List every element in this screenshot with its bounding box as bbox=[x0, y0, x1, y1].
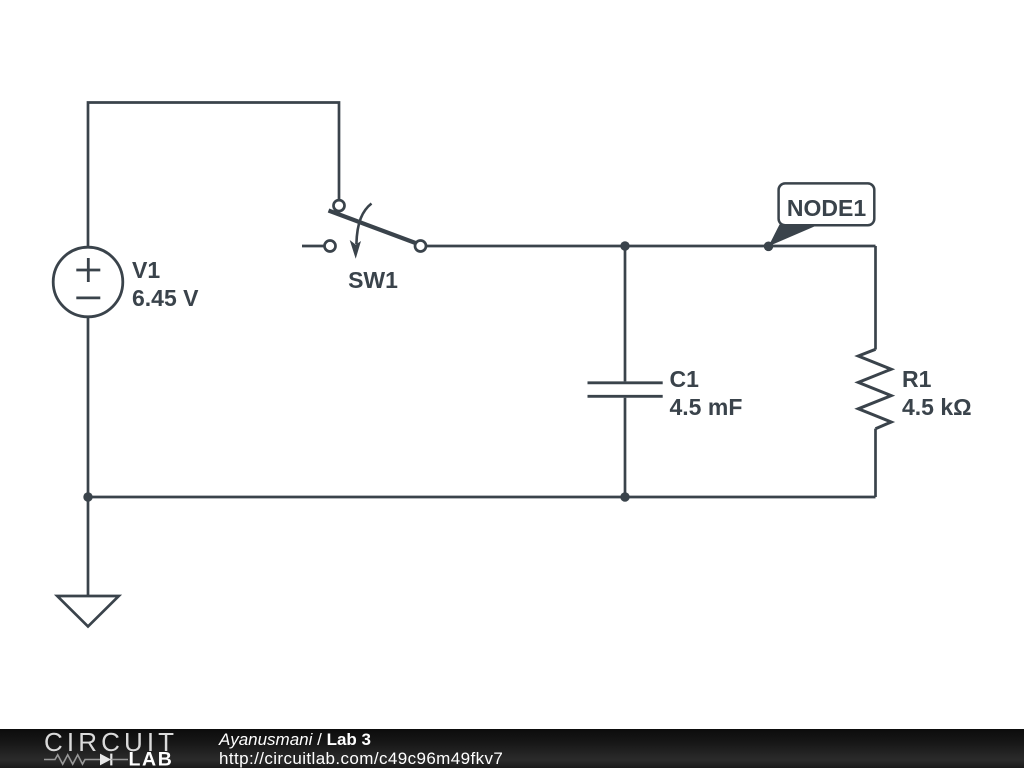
footer url bbox=[219, 749, 503, 768]
wire: capacitor top lead bbox=[624, 246, 627, 381]
svg-text:Ayanusmani / Lab 3: Ayanusmani / Lab 3 bbox=[218, 730, 371, 749]
svg-text:LAB: LAB bbox=[129, 749, 174, 768]
junction: bottom-left node bbox=[83, 492, 92, 501]
svg-text:6.45 V: 6.45 V bbox=[132, 285, 199, 311]
svg-text:R1: R1 bbox=[902, 366, 932, 392]
capacitor C1 bbox=[588, 383, 663, 397]
svg-text:NODE1: NODE1 bbox=[787, 195, 866, 221]
label SW1 bbox=[348, 267, 398, 293]
CircuitLab logo squiggle resistor bbox=[44, 755, 100, 764]
wire: V1 bottom lead bbox=[87, 317, 90, 498]
junction: capacitor top node bbox=[620, 241, 629, 250]
label V1 6.45 V bbox=[132, 257, 199, 311]
svg-text:4.5 kΩ: 4.5 kΩ bbox=[902, 394, 972, 420]
wire: resistor bottom to bottom rail bbox=[874, 429, 877, 497]
wire: V1 top to switch SW1 top terminal bbox=[88, 103, 339, 248]
svg-text:http://circuitlab.com/c49c96m4: http://circuitlab.com/c49c96m49fkv7 bbox=[219, 749, 503, 768]
ground bbox=[57, 596, 119, 627]
node NODE1 flag bbox=[769, 183, 875, 246]
svg-text:4.5 mF: 4.5 mF bbox=[670, 394, 743, 420]
wire: capacitor bottom lead bbox=[624, 398, 627, 497]
switch SW1 bbox=[302, 200, 426, 259]
CircuitLab logo diode bbox=[100, 754, 128, 766]
svg-text:SW1: SW1 bbox=[348, 267, 398, 293]
junction: NODE1 node dot bbox=[764, 242, 774, 252]
resistor R1 bbox=[858, 349, 891, 428]
footer bar bbox=[0, 729, 1024, 768]
voltage source V1 bbox=[53, 247, 123, 317]
label C1 4.5 mF bbox=[670, 366, 743, 420]
junction: capacitor bottom node bbox=[620, 492, 629, 501]
label R1 4.5 kOhm bbox=[902, 366, 972, 420]
CircuitLab logo LAB bbox=[129, 749, 174, 768]
CircuitLab logo CIRCUIT bbox=[44, 727, 178, 757]
wire: bottom rail bbox=[88, 496, 876, 499]
svg-text:C1: C1 bbox=[670, 366, 700, 392]
wire: ground lead bbox=[87, 497, 90, 596]
footer title Ayanusmani / Lab 3 bbox=[218, 730, 371, 749]
svg-text:V1: V1 bbox=[132, 257, 160, 283]
wire: SW1 right terminal to R1 top bbox=[426, 245, 876, 248]
wire: right vertical down to resistor bbox=[874, 246, 877, 350]
